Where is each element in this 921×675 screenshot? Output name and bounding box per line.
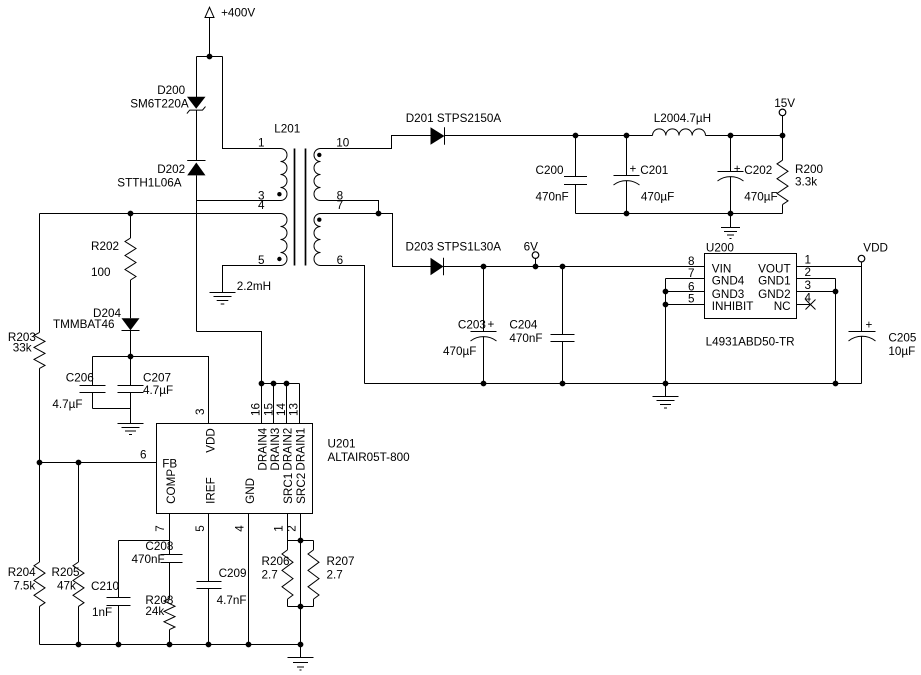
svg-text:GND3: GND3 [712, 288, 744, 301]
svg-text:C207: C207 [143, 371, 171, 384]
svg-text:L4931ABD50-TR: L4931ABD50-TR [706, 335, 795, 348]
svg-text:2: 2 [285, 525, 298, 532]
svg-text:GND2: GND2 [758, 288, 790, 301]
svg-text:U201: U201 [328, 438, 356, 451]
svg-text:2.7: 2.7 [327, 569, 343, 582]
svg-text:+: + [630, 163, 637, 176]
svg-text:8: 8 [688, 255, 695, 268]
svg-text:C203: C203 [458, 319, 486, 332]
svg-text:VDD: VDD [205, 428, 218, 453]
svg-text:VDD: VDD [863, 241, 888, 254]
svg-text:C208: C208 [145, 540, 173, 553]
svg-text:L2004.7µH: L2004.7µH [654, 112, 711, 125]
svg-text:INHIBIT: INHIBIT [712, 300, 754, 313]
svg-text:U200: U200 [706, 241, 734, 254]
svg-text:15V: 15V [774, 97, 795, 110]
svg-text:7: 7 [154, 525, 167, 532]
svg-text:1: 1 [805, 254, 812, 267]
svg-text:GND: GND [244, 478, 257, 504]
svg-text:R205: R205 [52, 566, 80, 579]
svg-text:DRAIN4: DRAIN4 [257, 427, 270, 470]
svg-text:DRAIN2: DRAIN2 [282, 428, 295, 471]
svg-text:C200: C200 [536, 164, 564, 177]
svg-text:6: 6 [688, 280, 695, 293]
svg-text:470µF: 470µF [641, 191, 674, 204]
svg-text:4.7nF: 4.7nF [217, 594, 247, 607]
svg-text:10µF: 10µF [888, 345, 915, 358]
svg-text:2.2mH: 2.2mH [237, 280, 271, 293]
svg-text:5: 5 [688, 293, 695, 306]
svg-text:D203 STPS1L30A: D203 STPS1L30A [406, 241, 502, 254]
svg-text:33k: 33k [13, 341, 32, 354]
svg-text:7: 7 [688, 267, 695, 280]
svg-text:470nF: 470nF [132, 553, 165, 566]
svg-text:1: 1 [273, 525, 286, 532]
svg-text:4: 4 [805, 291, 812, 304]
svg-text:C205: C205 [888, 332, 916, 345]
svg-text:SRC1: SRC1 [282, 473, 295, 504]
svg-text:+400V: +400V [221, 6, 255, 19]
svg-text:1nF: 1nF [92, 606, 112, 619]
svg-text:16: 16 [250, 403, 263, 416]
svg-text:3.3k: 3.3k [795, 175, 817, 188]
svg-text:+: + [488, 318, 495, 331]
svg-text:R206: R206 [262, 555, 290, 568]
svg-text:7.5k: 7.5k [13, 580, 35, 593]
svg-text:DRAIN3: DRAIN3 [269, 428, 282, 471]
svg-text:R200: R200 [795, 163, 823, 176]
svg-text:47k: 47k [57, 580, 76, 593]
svg-text:C204: C204 [509, 319, 537, 332]
svg-text:FB: FB [162, 457, 177, 470]
svg-text:SRC2: SRC2 [295, 473, 308, 504]
svg-text:R207: R207 [327, 555, 355, 568]
svg-text:C201: C201 [640, 164, 668, 177]
svg-text:470µF: 470µF [443, 345, 476, 358]
svg-text:D202: D202 [157, 163, 185, 176]
svg-text:470nF: 470nF [536, 191, 569, 204]
svg-text:470nF: 470nF [509, 332, 542, 345]
svg-text:GND4: GND4 [712, 275, 745, 288]
svg-text:+: + [734, 163, 741, 176]
svg-text:4.7µF: 4.7µF [52, 398, 82, 411]
svg-text:4: 4 [258, 199, 265, 212]
svg-text:4.7µF: 4.7µF [143, 384, 173, 397]
svg-text:3: 3 [194, 408, 207, 415]
svg-text:5: 5 [194, 525, 207, 532]
svg-text:GND1: GND1 [758, 275, 790, 288]
svg-text:15: 15 [262, 402, 275, 416]
svg-text:1: 1 [258, 136, 265, 149]
svg-text:D200: D200 [157, 84, 185, 97]
svg-text:100: 100 [91, 266, 111, 279]
svg-text:VOUT: VOUT [758, 262, 790, 275]
svg-text:C209: C209 [219, 567, 247, 580]
svg-text:14: 14 [275, 402, 288, 416]
svg-text:D201 STPS2150A: D201 STPS2150A [406, 112, 502, 125]
svg-text:6V: 6V [524, 241, 539, 254]
svg-text:3: 3 [805, 279, 812, 292]
svg-text:STTH1L06A: STTH1L06A [117, 177, 182, 190]
svg-text:4: 4 [233, 525, 246, 532]
svg-text:C202: C202 [744, 164, 772, 177]
svg-text:C206: C206 [66, 371, 94, 384]
svg-text:24k: 24k [145, 605, 164, 618]
svg-text:R202: R202 [91, 240, 119, 253]
svg-text:6: 6 [140, 448, 147, 461]
svg-text:2.7: 2.7 [262, 569, 278, 582]
svg-text:5: 5 [258, 254, 265, 267]
svg-text:ALTAIR05T-800: ALTAIR05T-800 [328, 451, 411, 464]
svg-text:470µF: 470µF [744, 191, 777, 204]
svg-text:C210: C210 [91, 580, 119, 593]
svg-text:COMP: COMP [165, 469, 178, 504]
svg-text:VIN: VIN [712, 262, 731, 275]
svg-text:L201: L201 [274, 122, 300, 135]
svg-text:DRAIN1: DRAIN1 [295, 428, 308, 471]
svg-text:7: 7 [337, 199, 344, 212]
svg-text:IREF: IREF [205, 477, 218, 504]
svg-text:NC: NC [774, 300, 791, 313]
svg-text:2: 2 [805, 266, 812, 279]
svg-text:SM6T220A: SM6T220A [130, 98, 189, 111]
svg-text:13: 13 [287, 403, 300, 416]
svg-text:TMMBAT46: TMMBAT46 [53, 318, 114, 331]
svg-text:+: + [866, 319, 873, 332]
svg-text:6: 6 [337, 254, 344, 267]
svg-text:10: 10 [336, 136, 350, 149]
svg-text:R204: R204 [8, 566, 36, 579]
